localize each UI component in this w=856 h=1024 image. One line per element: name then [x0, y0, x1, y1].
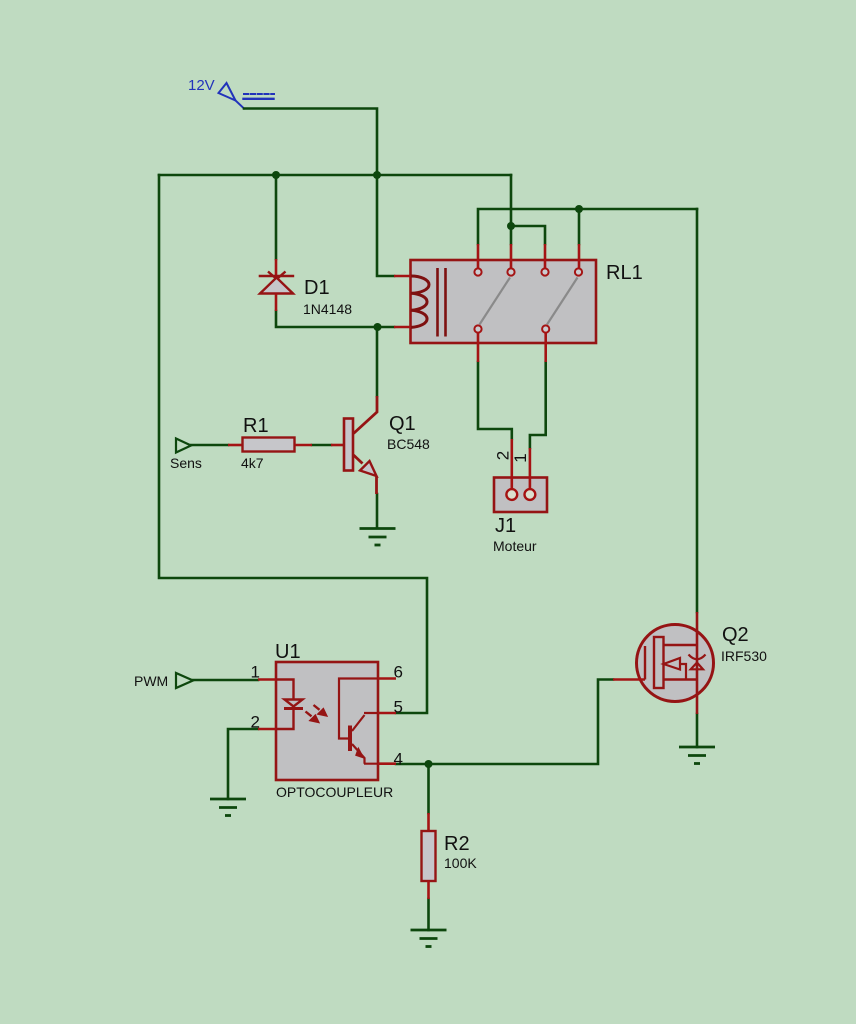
- svg-text:D1: D1: [304, 277, 330, 299]
- relay bottom pin stubs: [478, 333, 546, 363]
- U1 body: [276, 662, 378, 780]
- wire U1 pin2 to ground: [228, 729, 258, 799]
- svg-text:R2: R2: [444, 833, 470, 855]
- U1 phototransistor: [339, 679, 378, 764]
- Q2 drain connection: [664, 644, 698, 646]
- Q2 gate lead: [613, 678, 645, 681]
- svg-text:4k7: 4k7: [241, 455, 264, 471]
- wire Sens to R1: [191, 444, 228, 447]
- wire Q2 source to ground: [696, 714, 699, 747]
- relay switch contact 1: [480, 278, 511, 325]
- relay top pin circles: [474, 268, 582, 275]
- wire 12V to bus: [244, 109, 377, 176]
- wire left drop to pin5: [159, 175, 427, 713]
- junction node U1 pin4: [425, 760, 433, 768]
- wire U1 pin4 to R2 and Q2 gate: [396, 680, 613, 765]
- wire R2 to ground: [427, 899, 430, 930]
- relay bottom pin circles: [474, 325, 549, 332]
- mosfet Q2: [613, 612, 714, 714]
- wire bus drop to relay pin2: [510, 175, 513, 244]
- svg-text:2: 2: [251, 713, 260, 732]
- U1 light arrows: [306, 705, 327, 722]
- relay coil: [394, 276, 411, 327]
- junction node relay pin2/3: [507, 222, 515, 230]
- optocoupler U1: [258, 662, 396, 780]
- wire relay pin4 drop: [578, 209, 581, 244]
- Q2 source connection: [664, 678, 698, 680]
- svg-text:RL1: RL1: [606, 262, 643, 284]
- svg-text:IRF530: IRF530: [721, 648, 767, 664]
- svg-text:Q1: Q1: [389, 413, 416, 435]
- power terminal 12V: [219, 83, 275, 109]
- svg-text:R1: R1: [243, 415, 269, 437]
- relay body: [411, 260, 597, 343]
- ground (U1 pin2): [210, 799, 246, 816]
- U1 pin stubs: [258, 679, 396, 764]
- resistor R2: [422, 813, 436, 899]
- wire relay pin3 branch: [511, 226, 545, 244]
- svg-text:1N4148: 1N4148: [303, 301, 352, 317]
- svg-text:BC548: BC548: [387, 436, 430, 452]
- input terminal Sens: [176, 439, 191, 453]
- relay core bars: [438, 268, 446, 337]
- wire junction to R2: [427, 764, 430, 813]
- relay RL1: [394, 244, 596, 362]
- relay switch contact 2: [547, 278, 578, 325]
- U1 internal LED: [276, 680, 303, 730]
- svg-text:2: 2: [494, 451, 513, 460]
- ground (Q2 source): [679, 747, 715, 764]
- wire right rail to Q2 drain: [696, 209, 699, 612]
- junction node relay pin4 rail: [575, 205, 583, 213]
- svg-text:Moteur: Moteur: [493, 538, 537, 554]
- transistor Q1: [331, 396, 377, 494]
- junction node coil bottom: [374, 323, 382, 331]
- input terminal PWM: [176, 673, 193, 688]
- wire relay pinA to J1 pin2: [478, 362, 512, 439]
- svg-text:100K: 100K: [444, 855, 477, 871]
- wire PWM to U1 pin1: [193, 679, 258, 682]
- junction node bus-12V: [373, 171, 381, 179]
- wire R1 to Q1 base: [312, 444, 331, 447]
- resistor R1: [228, 438, 312, 452]
- svg-text:1: 1: [251, 663, 260, 682]
- wire D1 top: [275, 175, 278, 259]
- wire bus to coil top: [377, 175, 394, 276]
- wire Q1 emitter to ground: [376, 494, 379, 528]
- wire D1 bottom to coil junction: [276, 311, 394, 327]
- Q2 body diode: [691, 663, 703, 670]
- wire top bus: [159, 174, 511, 177]
- junction node bus-D1: [272, 171, 280, 179]
- ground (Q1 emitter): [360, 529, 396, 546]
- svg-text:12V: 12V: [188, 77, 215, 94]
- svg-text:1: 1: [511, 453, 530, 462]
- wire relay pin1 to pin4 top rail: [478, 209, 697, 244]
- relay top pin stubs: [478, 244, 579, 269]
- Q2 body circle: [637, 625, 714, 702]
- svg-text:J1: J1: [495, 515, 516, 537]
- svg-text:OPTOCOUPLEUR: OPTOCOUPLEUR: [276, 784, 393, 800]
- connector J1: [494, 439, 547, 512]
- svg-text:5: 5: [394, 698, 403, 717]
- Q2 drain-source conductor: [696, 612, 699, 714]
- svg-text:Q2: Q2: [722, 624, 749, 646]
- Q2 channel bar: [654, 637, 664, 688]
- Q2 substrate arrow: [664, 658, 681, 670]
- wire coil bottom junction down to Q1 collector: [376, 327, 379, 396]
- Q2 gate electrode: [644, 646, 646, 680]
- svg-text:Sens: Sens: [170, 455, 202, 471]
- ground (R2): [411, 930, 447, 947]
- svg-text:U1: U1: [275, 641, 301, 663]
- wire relay pinB to J1 pin1: [530, 362, 546, 448]
- svg-text:6: 6: [394, 663, 403, 682]
- diode D1: [259, 259, 295, 311]
- svg-text:PWM: PWM: [134, 673, 168, 689]
- svg-text:4: 4: [394, 750, 403, 769]
